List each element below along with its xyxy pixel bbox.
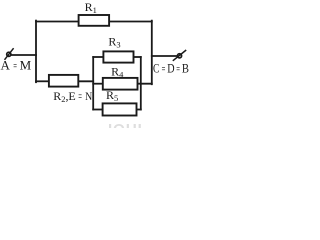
wire: R3 left stub xyxy=(93,56,103,58)
svg-text:=: = xyxy=(162,62,166,76)
resistor R3 xyxy=(103,51,133,62)
wire: top wire right segment xyxy=(109,21,152,23)
resistor R5 xyxy=(103,103,137,115)
wire: C terminal lead xyxy=(152,55,178,57)
wire: R2 to group left rail xyxy=(78,80,93,82)
wire: R5 right stub xyxy=(137,109,141,111)
svg-text:D: D xyxy=(167,61,174,75)
svg-text:=: = xyxy=(78,90,82,104)
wire: inner right rail xyxy=(140,57,142,110)
wire: A terminal lead xyxy=(11,54,36,56)
wire: R5 left stub xyxy=(93,109,102,111)
terminal C (arrow symbol) xyxy=(173,50,186,61)
wire: main right rail xyxy=(151,21,153,85)
resistor R1 xyxy=(79,15,110,26)
svg-text:M: M xyxy=(20,57,32,72)
resistor R2 xyxy=(49,75,78,87)
wire: group left rail xyxy=(92,57,94,110)
wire: top wire left segment xyxy=(36,21,79,23)
svg-text:=: = xyxy=(13,59,17,73)
wire: R4 right stub to main rail xyxy=(138,83,152,85)
svg-text:E: E xyxy=(68,89,75,103)
label C = D = B xyxy=(153,60,189,76)
svg-text:R2,: R2, xyxy=(53,89,68,104)
wire: left rail xyxy=(35,21,37,83)
wire: R3 right stub xyxy=(134,56,141,58)
svg-text:N: N xyxy=(85,90,92,103)
label R2, E = N xyxy=(53,89,92,104)
terminal A (arrow symbol) xyxy=(5,48,14,60)
resistor R4 xyxy=(103,78,138,90)
svg-text:A: A xyxy=(1,57,11,72)
wire: bottom wire rail to R2 xyxy=(36,80,49,82)
label A = M xyxy=(1,57,32,73)
wire: R4 left stub xyxy=(93,83,103,85)
svg-text:C: C xyxy=(153,62,159,76)
svg-text:IOUI: IOUI xyxy=(108,121,143,128)
svg-text:B: B xyxy=(182,60,189,75)
svg-text:=: = xyxy=(176,62,180,76)
